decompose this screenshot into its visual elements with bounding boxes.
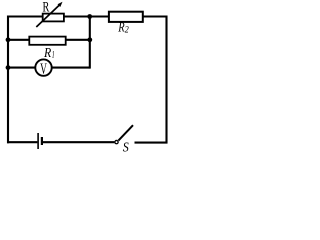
svg-text:V: V — [40, 61, 47, 78]
node dot voltmeter left junction — [6, 65, 11, 70]
label R1 — [43, 45, 54, 60]
voltmeter V — [35, 59, 51, 77]
node dot top junction — [87, 14, 92, 19]
node dot R1 right junction — [87, 37, 92, 42]
wire vertical connector — [89, 16, 91, 69]
svg-text:S: S — [123, 141, 129, 156]
wire bottom left segment — [7, 141, 37, 143]
wire R1 branch — [8, 39, 90, 41]
wire top — [7, 15, 168, 17]
svg-text:R: R — [43, 0, 50, 15]
svg-text:2: 2 — [125, 25, 129, 35]
svg-text:R: R — [43, 45, 52, 60]
wire left — [7, 16, 9, 144]
wire voltmeter branch — [8, 67, 90, 69]
resistor R1 body — [29, 37, 65, 45]
resistor R2 body — [109, 12, 143, 22]
label R2 — [118, 20, 130, 35]
battery long plate — [37, 133, 39, 149]
node dot R1 left junction — [6, 37, 11, 42]
battery short plate — [41, 137, 43, 145]
rheostat R body — [43, 14, 64, 22]
wire bottom right segment — [135, 142, 168, 144]
switch S lever — [118, 125, 133, 140]
svg-text:1: 1 — [52, 50, 55, 60]
switch S pivot — [115, 140, 118, 143]
rheostat R arrow — [36, 2, 62, 27]
wire right — [165, 16, 167, 144]
wire bottom middle segment — [43, 141, 115, 143]
